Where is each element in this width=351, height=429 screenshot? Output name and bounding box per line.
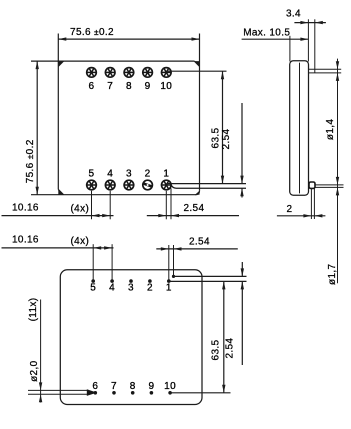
dimension 75.6 +-0.2 vertical left	[25, 61, 39, 195]
svg-text:2.54: 2.54	[184, 203, 205, 214]
svg-text:(4x): (4x)	[71, 203, 90, 214]
dimension 3.4 side view	[286, 9, 326, 73]
svg-text:2: 2	[145, 169, 151, 180]
pin 1 bottom view	[166, 279, 172, 293]
label diameter 1.7	[327, 264, 338, 285]
side view bottom pin	[309, 185, 344, 188]
pin 2 bottom view	[147, 279, 153, 293]
pin 7 top view	[105, 67, 116, 92]
svg-text:10.16: 10.16	[12, 202, 39, 213]
svg-text:75.6 ±0.2: 75.6 ±0.2	[70, 27, 114, 38]
extension line pin 4 top view	[109, 191, 111, 220]
svg-text:4: 4	[107, 169, 113, 180]
pin 7 bottom view	[111, 381, 117, 395]
svg-text:10: 10	[160, 81, 172, 92]
pin 9 bottom view	[148, 381, 154, 395]
pin 5 top view	[86, 169, 97, 191]
dimension 75.6 +-0.2 horizontal top	[58, 27, 199, 41]
extension line pin 5 bottom view	[92, 244, 94, 281]
svg-text:63.5: 63.5	[210, 127, 221, 148]
label (11x)	[28, 298, 39, 322]
svg-text:3.4: 3.4	[286, 9, 301, 20]
side view body outline	[290, 61, 309, 195]
pin 1 top view	[161, 169, 172, 191]
side view pin boss	[309, 182, 315, 188]
svg-text:2.54: 2.54	[221, 128, 232, 149]
side view parting line	[299, 63, 301, 194]
svg-text:2.54: 2.54	[224, 338, 235, 359]
extension line edge top view	[170, 188, 172, 219]
svg-text:8: 8	[130, 381, 136, 392]
leader line pin 10 row	[166, 70, 226, 72]
dimension 2.54 top view bottom	[147, 203, 239, 218]
label diameter 2.0	[29, 360, 40, 381]
svg-text:ø1,4: ø1,4	[325, 119, 336, 140]
dimension line pin diameters side view	[336, 59, 339, 284]
svg-text:10.16: 10.16	[12, 235, 39, 246]
leader line pin 1 row bottom view	[169, 280, 247, 282]
pin 2 top view	[142, 169, 153, 191]
svg-text:1: 1	[166, 283, 172, 294]
extension line pin 1 bottom view	[168, 245, 170, 281]
pin 10 top view	[160, 67, 172, 92]
dimension 63.5 top view	[210, 71, 224, 183]
pin 10 bottom view	[164, 381, 176, 395]
svg-text:2: 2	[286, 204, 292, 215]
pin 6 bottom view	[92, 381, 98, 395]
dimension line hole diameter	[39, 300, 42, 403]
dimension 2 side view	[277, 188, 326, 219]
leader line reference row bottom view	[174, 275, 247, 277]
svg-text:6: 6	[89, 81, 95, 92]
dimension 2.54 top view right	[221, 103, 244, 198]
pin 6 top view	[86, 67, 97, 92]
svg-text:10: 10	[164, 381, 176, 392]
leader line package edge row	[171, 185, 246, 188]
extension line reference bottom view	[173, 245, 175, 276]
pin 4 top view	[105, 169, 116, 191]
svg-text:8: 8	[126, 81, 132, 92]
svg-text:(4x): (4x)	[71, 236, 90, 247]
pin 3 top view	[123, 169, 134, 191]
dimension 10.16 (4x) bottom view	[2, 235, 114, 250]
svg-text:(11x): (11x)	[28, 298, 39, 322]
svg-text:9: 9	[148, 381, 154, 392]
pin 8 top view	[123, 67, 134, 92]
svg-text:75.6 ±0.2: 75.6 ±0.2	[25, 139, 36, 183]
svg-text:6: 6	[92, 381, 98, 392]
svg-text:ø1,7: ø1,7	[327, 264, 338, 285]
leader line pin 1 row	[166, 183, 246, 185]
svg-text:Max. 10.5: Max. 10.5	[243, 28, 290, 39]
side view top pin	[309, 69, 342, 73]
svg-text:9: 9	[145, 81, 151, 92]
extension line pin 5 top view	[91, 191, 93, 220]
pin 9 top view	[142, 67, 153, 92]
label diameter 1.4	[325, 119, 336, 140]
bottom view package outline	[60, 270, 202, 405]
svg-text:5: 5	[89, 169, 95, 180]
dimension 2.54 bottom view right	[224, 262, 244, 365]
svg-text:3: 3	[128, 283, 134, 294]
svg-text:5: 5	[90, 283, 96, 294]
dimension Max. 10.5 side view	[242, 28, 309, 62]
top view package outline	[31, 34, 200, 195]
svg-text:7: 7	[107, 81, 113, 92]
hollow arrow hole leader	[28, 389, 97, 396]
pin 8 bottom view	[130, 381, 136, 395]
extension line pin 1 top view	[165, 191, 167, 220]
svg-text:2.54: 2.54	[189, 236, 210, 247]
svg-text:2: 2	[147, 283, 153, 294]
extension line pin 4 bottom view	[111, 244, 113, 281]
pin 4 bottom view	[109, 279, 115, 293]
svg-text:1: 1	[163, 169, 169, 180]
svg-text:4: 4	[109, 283, 115, 294]
junction dot bottom view	[172, 275, 175, 278]
dimension 63.5 bottom view	[211, 281, 226, 392]
svg-text:ø2,0: ø2,0	[29, 360, 40, 381]
dimension 10.16 (4x) top view	[2, 202, 114, 217]
dimension 2.54 bottom view top	[156, 236, 238, 250]
svg-text:3: 3	[126, 169, 132, 180]
pin 3 bottom view	[128, 279, 134, 293]
pin 5 bottom view	[90, 279, 96, 293]
svg-text:63.5: 63.5	[211, 339, 222, 360]
svg-text:7: 7	[111, 381, 117, 392]
leader line pin 10 row bottom view	[170, 392, 230, 394]
